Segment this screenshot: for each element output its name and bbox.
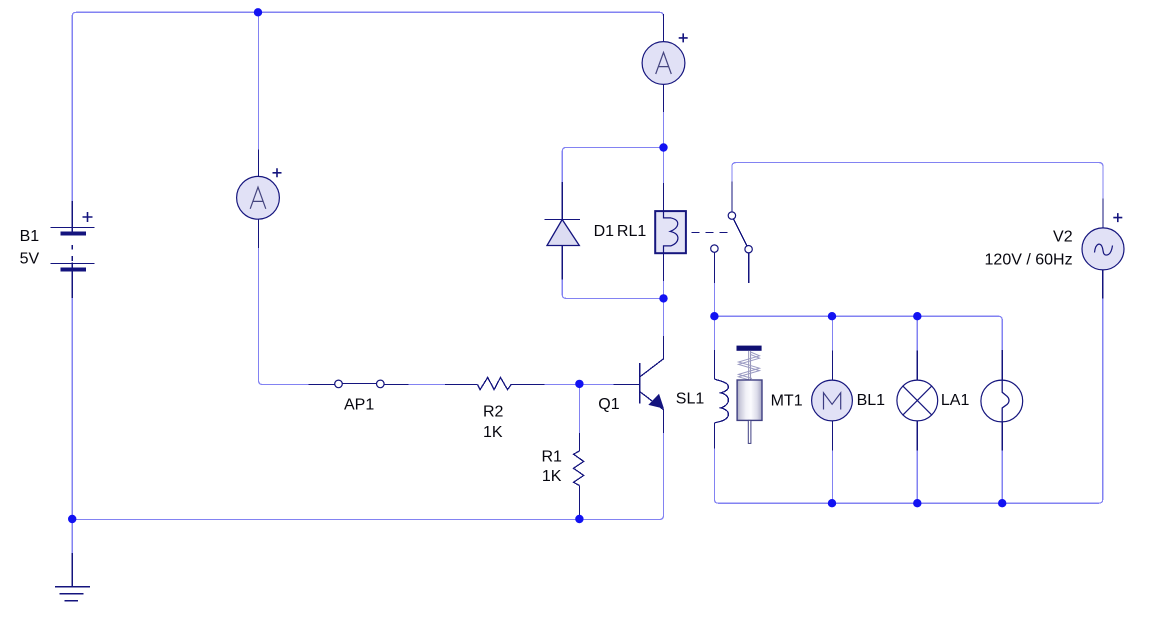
svg-text:B1: B1 [20, 228, 40, 245]
svg-text:LA1: LA1 [941, 392, 970, 409]
svg-text:SL1: SL1 [676, 391, 705, 408]
svg-text:1K: 1K [542, 468, 562, 485]
svg-text:D1: D1 [594, 223, 615, 240]
svg-text:1K: 1K [483, 424, 503, 441]
svg-text:120V / 60Hz: 120V / 60Hz [985, 252, 1073, 269]
svg-text:AP1: AP1 [344, 397, 374, 414]
svg-text:BL1: BL1 [857, 392, 886, 409]
svg-text:Q1: Q1 [598, 396, 619, 413]
svg-text:5V: 5V [20, 251, 40, 268]
svg-text:RL1: RL1 [617, 223, 646, 240]
svg-text:V2: V2 [1053, 229, 1073, 246]
svg-text:R1: R1 [541, 448, 562, 465]
svg-text:MT1: MT1 [771, 392, 803, 409]
svg-text:R2: R2 [483, 404, 504, 421]
